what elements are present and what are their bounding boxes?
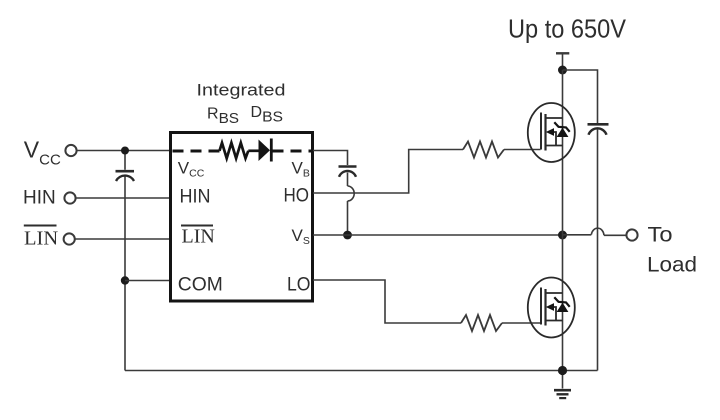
- pin label LIN with overline: [181, 226, 215, 248]
- svg-text:RBS: RBS: [207, 106, 239, 128]
- junction dot COM rail: [121, 276, 129, 284]
- svg-text:LIN: LIN: [182, 226, 215, 248]
- wire hop to VS node: [347, 201, 349, 235]
- capacitor bus: [588, 124, 609, 135]
- wire HIN to IC: [76, 197, 170, 199]
- wire R2 to Q2 gate: [502, 322, 541, 324]
- svg-text:HIN: HIN: [180, 186, 211, 208]
- junction dot bottom return: [558, 366, 567, 375]
- wire left vertical rail upper: [124, 151, 126, 170]
- svg-text:HO: HO: [284, 185, 310, 207]
- svg-text:Up to 650V: Up to 650V: [508, 13, 627, 43]
- svg-text:LIN: LIN: [24, 227, 58, 249]
- wire bus cap branch bottom: [597, 129, 599, 371]
- wire HO to gate resistor: [313, 150, 463, 194]
- wire bus terminal down: [562, 53, 564, 70]
- resistor R1 high side gate: [463, 142, 504, 158]
- wire VCC to IC: [77, 150, 170, 152]
- svg-text:DBS: DBS: [251, 104, 284, 126]
- wire main rail: [562, 70, 564, 389]
- wire dashed DBS to VB: [273, 150, 312, 153]
- wire dashed VCC to RBS: [173, 150, 220, 153]
- diode DBS: [259, 139, 272, 162]
- junction dot bus top: [558, 66, 567, 75]
- wire bus cap branch top: [563, 70, 598, 123]
- terminal VCC circle: [65, 145, 76, 156]
- svg-text:LO: LO: [287, 274, 311, 296]
- transistor Q2 low side MOSFET: [528, 278, 575, 338]
- svg-text:COM: COM: [178, 274, 223, 296]
- wire hop to load terminal: [604, 234, 626, 236]
- wire bootstrap cap to hop: [347, 173, 349, 187]
- terminal To Load circle: [626, 229, 637, 240]
- wire hop over bus cap line: [591, 228, 604, 235]
- terminal HIN circle: [64, 192, 75, 203]
- label LIN with overline: [24, 226, 59, 250]
- junction dot VS rail: [558, 231, 567, 240]
- svg-text:To: To: [648, 224, 673, 247]
- svg-text:Integrated: Integrated: [197, 81, 286, 99]
- wire VS node to hop: [563, 234, 592, 236]
- IC U1 gate driver box: [171, 133, 313, 302]
- svg-text:VB: VB: [292, 159, 310, 180]
- junction dot VCC rail: [121, 147, 129, 155]
- svg-text:VCC: VCC: [24, 137, 61, 169]
- wire VS out: [313, 234, 563, 236]
- wire hop over HO: [348, 186, 355, 201]
- svg-text:Load: Load: [647, 254, 697, 277]
- wire R1 to Q1 gate: [504, 149, 541, 151]
- terminal bus top bar: [556, 52, 569, 54]
- resistor RBS: [220, 143, 249, 159]
- wire VB out: [313, 151, 348, 166]
- svg-text:VCC: VCC: [178, 159, 205, 180]
- wire bottom return: [125, 370, 598, 372]
- wire LO to gate resistor: [313, 280, 461, 323]
- resistor R2 low side gate: [461, 315, 502, 331]
- terminal LIN circle: [64, 233, 75, 244]
- wire left vertical rail lower: [124, 177, 126, 371]
- capacitor bootstrap CBS: [339, 167, 357, 177]
- ground: [554, 390, 571, 398]
- svg-text:VS: VS: [292, 226, 310, 247]
- svg-text:HIN: HIN: [23, 187, 56, 208]
- junction dot bootstrap VS: [343, 231, 352, 240]
- capacitor C1 left decoupling: [116, 171, 135, 181]
- wire RBS to DBS: [248, 149, 258, 152]
- wire COM to IC: [125, 280, 170, 282]
- transistor Q1 high side MOSFET: [528, 103, 575, 162]
- wire LIN to IC: [75, 238, 170, 240]
